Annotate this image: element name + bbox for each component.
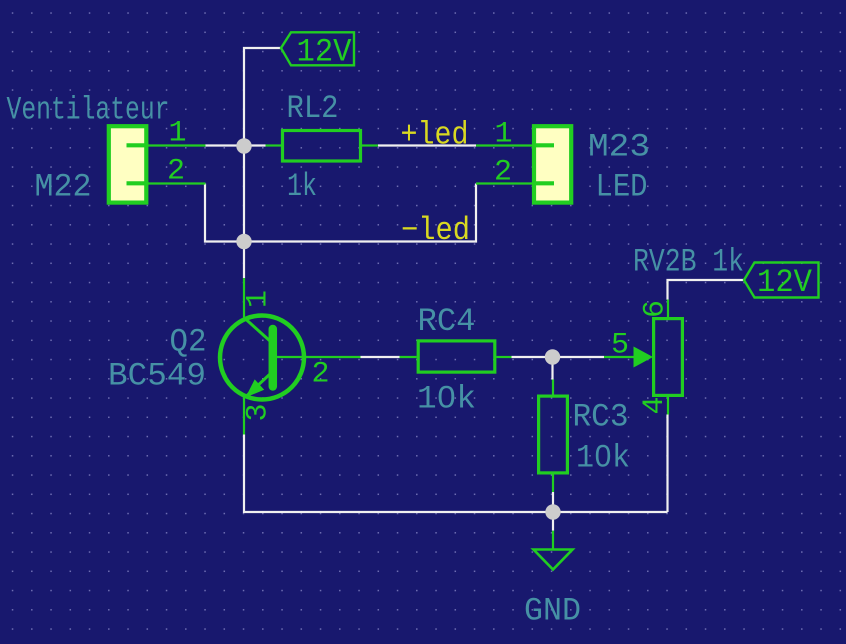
svg-text:M23: M23 xyxy=(588,129,650,166)
svg-text:Ventilateur: Ventilateur xyxy=(7,92,170,129)
svg-text:M22: M22 xyxy=(35,169,92,206)
svg-text:+led: +led xyxy=(401,117,469,154)
svg-text:3: 3 xyxy=(242,403,276,421)
svg-text:RC3: RC3 xyxy=(573,399,629,436)
svg-text:−led: −led xyxy=(401,212,470,249)
svg-text:1k: 1k xyxy=(287,168,317,205)
svg-text:2: 2 xyxy=(312,358,330,392)
svg-text:RC4: RC4 xyxy=(418,303,476,340)
svg-text:1: 1 xyxy=(242,290,276,308)
svg-text:2: 2 xyxy=(167,155,185,189)
svg-text:LED: LED xyxy=(596,169,648,206)
svg-text:2: 2 xyxy=(494,156,512,190)
svg-text:GND: GND xyxy=(524,593,581,630)
svg-text:1: 1 xyxy=(169,117,187,151)
svg-text:1: 1 xyxy=(495,118,513,152)
svg-text:RV2B 1k: RV2B 1k xyxy=(633,244,744,281)
svg-text:4: 4 xyxy=(638,396,672,414)
svg-text:RL2: RL2 xyxy=(287,90,339,127)
svg-text:12V: 12V xyxy=(297,34,353,71)
svg-text:12V: 12V xyxy=(757,264,813,301)
svg-text:Q2: Q2 xyxy=(170,324,207,361)
svg-text:6: 6 xyxy=(639,300,673,318)
svg-text:5: 5 xyxy=(611,329,629,363)
svg-text:BC549: BC549 xyxy=(108,358,206,395)
